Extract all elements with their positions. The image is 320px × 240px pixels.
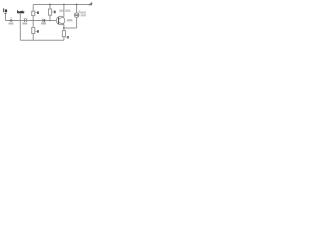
label C2 value bbox=[22, 23, 27, 25]
label R2 bbox=[35, 30, 39, 33]
label Q1 part bbox=[65, 10, 70, 13]
net label Laut bbox=[17, 10, 24, 13]
transistor Q1 bbox=[56, 16, 64, 24]
resistor R4 bbox=[62, 31, 65, 41]
label R4 bbox=[66, 36, 69, 39]
terminal In bbox=[3, 8, 7, 14]
label R1 bbox=[35, 11, 39, 14]
node collector tee bbox=[63, 4, 65, 6]
wire top rail bbox=[33, 4, 90, 6]
label Q1 type bbox=[67, 19, 72, 21]
LED D1 bbox=[74, 11, 81, 18]
resistor R3 bbox=[49, 5, 52, 21]
node B junction bbox=[49, 20, 51, 22]
label Q1 bbox=[59, 10, 63, 13]
wire LED branch down bbox=[76, 5, 78, 13]
resistor R2 bbox=[32, 21, 35, 41]
wire collector bbox=[63, 5, 65, 17]
wire LED branch lower bbox=[76, 18, 78, 28]
wire LED to emitter bbox=[64, 27, 77, 29]
label D1 colour bbox=[81, 14, 86, 16]
wire shunt to ground bbox=[19, 14, 21, 41]
wire bottom rail bbox=[20, 39, 64, 41]
resistor R1 bbox=[32, 5, 35, 21]
label D1 bbox=[81, 12, 86, 14]
capacitor C1 bbox=[9, 18, 12, 22]
label C3 value bbox=[41, 23, 46, 25]
label C1 value bbox=[9, 23, 14, 25]
node top rail LED bbox=[76, 4, 78, 6]
wire emitter bbox=[63, 24, 65, 30]
capacitor C3 bbox=[42, 18, 45, 22]
node C junction bbox=[63, 27, 65, 29]
wire main horizontal bbox=[6, 20, 57, 22]
node top rail R3 bbox=[49, 4, 51, 6]
label R3 bbox=[52, 11, 56, 14]
wire input vertical bbox=[5, 14, 7, 21]
capacitor C2 bbox=[24, 19, 28, 23]
node A junction bbox=[32, 20, 34, 22]
supply arrow bbox=[89, 2, 92, 5]
